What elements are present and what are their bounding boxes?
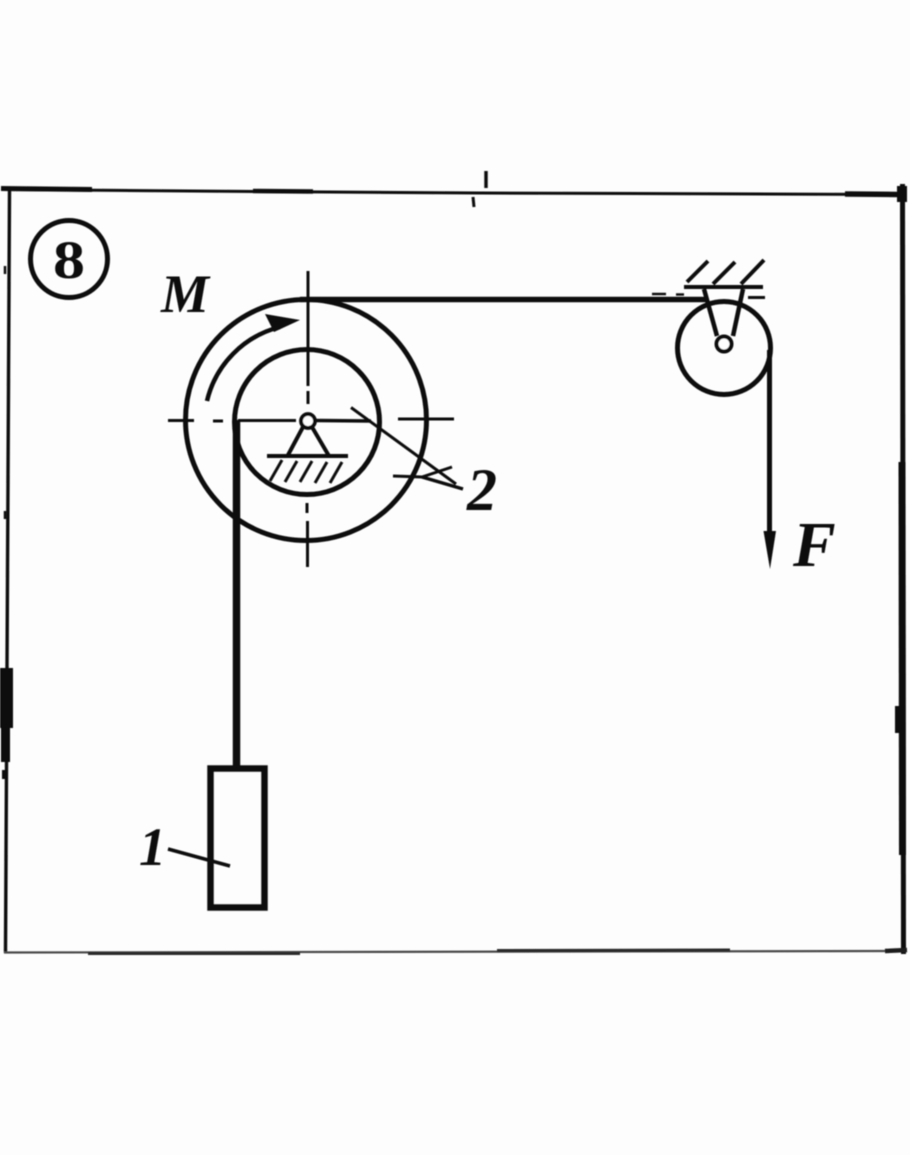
svg-text:M: M bbox=[160, 264, 211, 324]
frame border top bbox=[1, 171, 907, 207]
pulley 2 outer circle bbox=[186, 300, 427, 541]
rope from big pulley to small pulley bbox=[300, 297, 708, 303]
badge circle 8 bbox=[31, 221, 108, 298]
rope texture dashes bbox=[652, 293, 684, 296]
ceiling centerline dash bbox=[748, 296, 765, 299]
leader arrows for label 2 bbox=[351, 408, 463, 490]
ceiling line bbox=[684, 285, 763, 289]
frame border right bbox=[897, 184, 904, 954]
force F arrow bbox=[764, 350, 777, 569]
svg-text:1: 1 bbox=[139, 817, 166, 877]
block 1 bbox=[211, 769, 265, 908]
frame border bottom bbox=[4, 950, 907, 954]
pivot pin bbox=[301, 414, 315, 428]
pulley 2 inner circle bbox=[235, 350, 380, 495]
rope from inner pulley to block bbox=[233, 420, 241, 766]
support triangle at pivot bbox=[267, 427, 348, 456]
svg-text:8: 8 bbox=[53, 230, 85, 290]
ceiling hatching bbox=[687, 260, 764, 284]
horizontal centerline bbox=[168, 419, 454, 421]
small pulley pin bbox=[717, 337, 732, 352]
vertical centerline bbox=[307, 271, 308, 567]
svg-text:2: 2 bbox=[466, 457, 497, 523]
small pulley bbox=[678, 302, 771, 395]
svg-text:F: F bbox=[792, 509, 836, 580]
frame border left bbox=[0, 189, 13, 953]
radius arrow to inner circle bbox=[316, 419, 371, 423]
leader line for label 1 bbox=[168, 849, 230, 866]
support hatching bbox=[270, 460, 342, 483]
moment arc arrow bbox=[207, 314, 300, 401]
bracket for small pulley bbox=[704, 289, 743, 336]
